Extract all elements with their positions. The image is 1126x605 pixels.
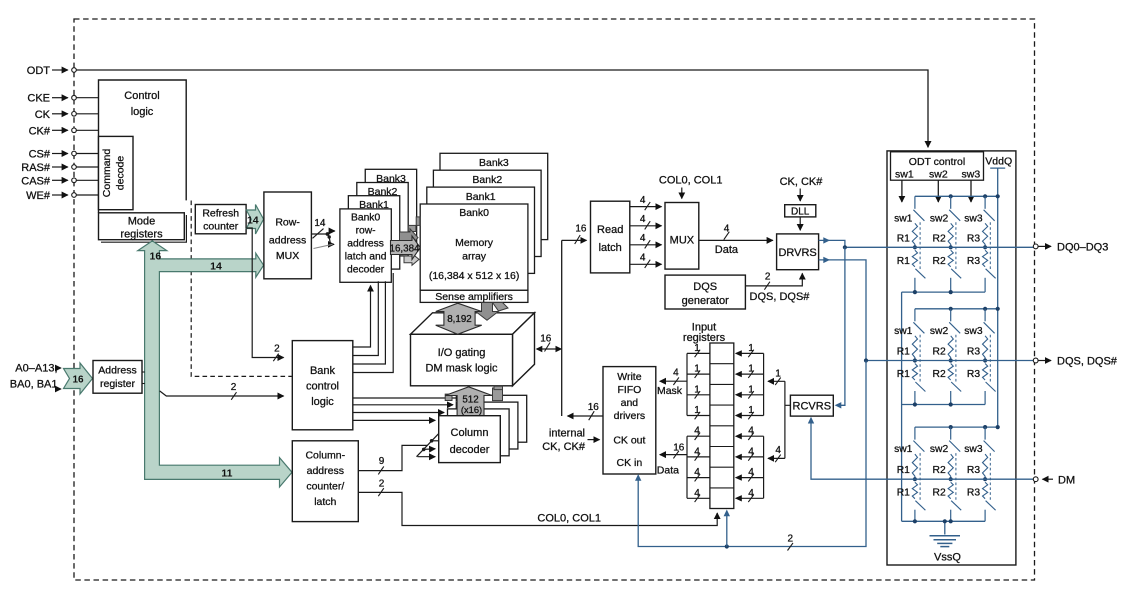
arrowhead into RCVRS right: [835, 402, 842, 408]
svg-text:MUX: MUX: [670, 234, 695, 246]
pin CAS# wire: [52, 179, 68, 181]
wire ODT to ODT control: [76, 70, 928, 147]
svg-text:R3: R3: [967, 233, 980, 244]
svg-text:BA0, BA1: BA0, BA1: [10, 379, 58, 391]
svg-text:1: 1: [748, 343, 754, 354]
svg-text:RCVRS: RCVRS: [793, 401, 832, 413]
wire fan to decoder stack lower: [329, 237, 334, 244]
svg-text:ODT: ODT: [27, 65, 51, 77]
wire CK into control logic: [76, 113, 98, 115]
ground tap wire: [944, 521, 946, 534]
arrowhead CK into input registers: [724, 510, 730, 517]
wire internal CK into write FIFO: [588, 439, 600, 441]
resistor R2 upper (DM): [948, 454, 953, 479]
svg-text:8,192: 8,192: [447, 314, 472, 325]
svg-text:R1: R1: [897, 465, 910, 476]
wire RAS# into command decode: [76, 166, 98, 168]
svg-text:2: 2: [765, 272, 771, 283]
wire A0-A13 into bus: [59, 367, 62, 369]
slashes on right mask comb: [748, 350, 754, 358]
switch linkage dashed sw2 (DQS): [955, 335, 957, 383]
wire pad to DQS label: [1039, 360, 1052, 362]
bank1 row decoder box: [348, 196, 399, 269]
svg-text:1: 1: [748, 405, 754, 416]
wire DQ rail to RCVRS: [838, 247, 845, 405]
pad circle DQ0-DQ3: [1033, 244, 1038, 249]
wire ODT control to sw1: [901, 180, 903, 202]
switch linkage dashed sw1 (DQS): [919, 335, 921, 383]
node ground tap: [943, 519, 947, 523]
wire pad to DQ label: [1039, 245, 1052, 247]
command decode box: [99, 136, 134, 209]
svg-text:2: 2: [379, 478, 385, 489]
wire 1 RCVRS to mask comb: [768, 380, 785, 382]
resistor R1 lower (DQS): [912, 364, 917, 380]
node mid rail DM c3: [983, 477, 987, 481]
switch linkage dashed sw1 (DM): [919, 453, 921, 501]
svg-text:Address: Address: [98, 365, 137, 377]
gray bus 8,192 echo arrow (behind): [476, 303, 499, 321]
svg-text:DQS, DQS#: DQS, DQS#: [750, 291, 811, 303]
wire fan arrow into front decoder (upper): [424, 448, 436, 451]
teal input bus arrow 16 from A0-A13,BA0,BA1: [64, 363, 93, 394]
pin CS# wire: [52, 153, 68, 155]
svg-text:Write: Write: [617, 371, 641, 383]
wire bank control to decoder 1: [353, 286, 371, 348]
wire CS# into command decode: [76, 153, 98, 155]
svg-text:CK in: CK in: [617, 457, 643, 469]
svg-text:decoder: decoder: [347, 265, 385, 276]
ODT group DQS top rail: [915, 308, 998, 310]
svg-text:Control: Control: [124, 90, 159, 102]
column select diagonal fan: [417, 433, 440, 457]
svg-text:sw2: sw2: [930, 444, 949, 455]
gray bus 512 shadow step: [494, 386, 503, 389]
wire CAS# into command decode: [76, 179, 98, 181]
svg-text:512: 512: [462, 394, 478, 405]
switch sw2 (DQ): [950, 196, 952, 209]
node bottom rail DM c2: [949, 519, 953, 523]
wire CK,CK# into DLL: [799, 189, 801, 202]
svg-text:RAS#: RAS#: [21, 162, 51, 174]
svg-text:R2: R2: [933, 347, 946, 358]
mode registers box: [99, 213, 185, 240]
svg-text:2: 2: [788, 533, 794, 544]
node DQ rail tap: [843, 245, 847, 249]
bank0 row-address latch and decoder box: [340, 209, 391, 282]
svg-text:Column-: Column-: [305, 450, 345, 462]
slash on 1 wire: [775, 378, 781, 386]
node top rail DQS c3: [983, 307, 987, 311]
svg-text:register: register: [100, 378, 136, 390]
resistor R2 upper (DQ): [948, 223, 953, 247]
node top rail DQ c2: [949, 194, 953, 198]
svg-text:sw1: sw1: [894, 326, 913, 337]
address register box: [93, 361, 142, 394]
node mid rail DQ c2: [949, 245, 953, 249]
switch lower sw2 (DM): [951, 501, 961, 511]
svg-text:WE#: WE#: [26, 190, 51, 202]
svg-text:DQS: DQS: [693, 281, 717, 293]
input registers column: [710, 343, 734, 509]
wire ODT control to sw2: [937, 180, 939, 202]
wire DM label to pad: [1043, 478, 1054, 480]
column decoder front box: [439, 416, 501, 463]
gray bus arrow 16,384 decoder to memory array: [391, 236, 421, 260]
wire bank control to column decoder front: [353, 419, 435, 421]
svg-text:1: 1: [694, 364, 700, 375]
svg-text:VddQ: VddQ: [985, 156, 1012, 168]
switch lower sw3 (DM): [986, 501, 996, 511]
svg-text:Data: Data: [715, 244, 739, 256]
node top rail DM c3: [983, 425, 987, 429]
input register cell dividers: [710, 363, 734, 365]
wire fan gray echo: [314, 244, 333, 248]
svg-text:R2: R2: [933, 369, 946, 380]
svg-text:control: control: [306, 381, 339, 393]
svg-text:14: 14: [210, 260, 222, 272]
wire bank control to column decoder stack 2: [353, 412, 444, 414]
svg-text:4: 4: [775, 445, 781, 456]
slashes on read latch to MUX wires: [645, 202, 651, 210]
svg-text:Bank0: Bank0: [351, 213, 380, 224]
bank control logic box: [292, 341, 353, 430]
wire 4 RCVRS to data comb: [768, 457, 785, 459]
pad circle CK#: [72, 128, 77, 133]
memory array bank2 box: [433, 170, 541, 256]
svg-text:4: 4: [640, 214, 646, 225]
gray bus 512 shadow block: [493, 388, 503, 401]
wire bank control to decoder 2: [353, 281, 379, 355]
resistor R3 lower (DQS): [982, 364, 987, 380]
pad circle CS#: [72, 151, 77, 156]
svg-text:Column: Column: [451, 427, 489, 439]
svg-text:address: address: [269, 234, 306, 246]
svg-text:Row-: Row-: [275, 216, 300, 228]
wire 2 DQS generator to DRVRS: [745, 273, 802, 286]
switch sw1 (DQ): [914, 196, 916, 209]
wire 16 write FIFO to internal bus: [568, 415, 604, 417]
resistor R1 upper (DM): [912, 454, 917, 479]
ODT group DM bottom rail: [902, 520, 986, 522]
svg-text:16: 16: [540, 333, 552, 344]
svg-text:DRVRS: DRVRS: [778, 247, 816, 259]
node mid rail DQ c3: [983, 245, 987, 249]
wire fan arrow into decoder 2: [432, 440, 445, 442]
svg-text:1: 1: [775, 369, 781, 380]
svg-text:R3: R3: [967, 488, 980, 499]
DLL box: [785, 205, 816, 217]
wire 14 MUX to bank0 row decoder: [311, 233, 327, 235]
svg-text:latch and: latch and: [345, 252, 387, 263]
node bottom rail DQS c1: [913, 402, 917, 406]
right data input comb: [738, 436, 763, 498]
resistor R3 lower (DQ): [982, 250, 987, 266]
resistor R3 upper (DQS): [982, 336, 987, 361]
node at 14 fanout: [326, 232, 330, 236]
wire ODT control to sw3: [970, 180, 972, 202]
slash on Data wire: [724, 232, 730, 240]
pin RAS# wire: [52, 166, 68, 168]
svg-text:R1: R1: [897, 256, 910, 267]
wire bank control to column decoder stack 4: [353, 397, 462, 399]
ODT group DM top rail: [915, 426, 998, 428]
switch sw3 (DM): [984, 427, 986, 440]
slash on refresh 2 wire: [273, 354, 278, 362]
svg-text:R1: R1: [897, 347, 910, 358]
svg-text:Data: Data: [657, 464, 679, 476]
wire 16 Data to write FIFO: [660, 454, 687, 456]
memory array bank3 box: [440, 153, 548, 239]
svg-text:address: address: [307, 465, 344, 477]
node top rail DM c2: [949, 425, 953, 429]
svg-text:R3: R3: [967, 465, 980, 476]
DRVRS box: [777, 234, 819, 270]
gray bus 16,384 lower echo arrow: [404, 254, 419, 266]
resistor R1 upper (DQS): [912, 336, 917, 361]
switch linkage dashed sw3 (DQS): [989, 335, 991, 383]
wire CKE into control logic: [76, 97, 98, 99]
svg-text:14: 14: [314, 218, 326, 229]
wire 4 Data MUX to DRVRS: [699, 239, 773, 241]
pin WE# wire: [52, 194, 68, 196]
svg-text:CK#: CK#: [29, 125, 51, 137]
wire bank control to column decoder stack 3: [353, 404, 453, 406]
resistor R3 upper (DM): [982, 454, 987, 479]
slash on Mask wire: [673, 377, 679, 385]
switch lower sw2 (DQ): [951, 269, 961, 279]
svg-text:16: 16: [588, 402, 600, 413]
switch lower sw2 (DQS): [951, 382, 961, 392]
switch linkage dashed sw3 (DQ): [989, 222, 991, 269]
svg-text:Memory: Memory: [455, 237, 494, 249]
svg-text:FIFO: FIFO: [617, 384, 641, 396]
wire DRVRS out to DQ pad rail: [819, 240, 1034, 247]
svg-text:16: 16: [575, 223, 587, 234]
gray bus 16,384 stack step B: [408, 225, 416, 231]
gray bus 16,384 stack step A: [416, 217, 420, 226]
arrowheads into register column (data): [735, 433, 742, 439]
wire 2 counter to COL0,COL1 run: [358, 492, 717, 525]
left data bus comb: [687, 436, 710, 498]
wire fan arrow into front decoder (lower): [418, 456, 436, 458]
svg-text:and: and: [621, 397, 639, 409]
switch sw2 (DQS): [950, 309, 952, 322]
svg-text:latch: latch: [314, 496, 336, 508]
wire 2 from address bus to bank control logic: [160, 391, 284, 396]
svg-text:1: 1: [748, 384, 754, 395]
I/O gating DM mask logic front face: [411, 334, 513, 386]
I/O gating 3D box right face: [513, 313, 535, 386]
svg-text:R2: R2: [933, 465, 946, 476]
slash on read 16 wire: [575, 235, 581, 244]
node on fan: [422, 448, 426, 452]
svg-text:R2: R2: [933, 256, 946, 267]
svg-text:4: 4: [640, 195, 646, 206]
switch linkage dashed sw1 (DQ): [919, 222, 921, 269]
node mid rail DM c2: [949, 477, 953, 481]
ODT group DQ top rail: [915, 195, 998, 197]
svg-text:sw2: sw2: [930, 326, 949, 337]
svg-text:DM: DM: [1058, 474, 1075, 486]
svg-text:registers: registers: [683, 332, 726, 344]
pad circle WE#: [72, 193, 77, 198]
node at lower fan: [328, 235, 331, 238]
svg-text:4: 4: [694, 426, 700, 437]
svg-text:11: 11: [221, 468, 232, 480]
switch lower sw1 (DM): [915, 501, 925, 511]
slashes on right data comb: [748, 433, 754, 441]
svg-text:1: 1: [694, 405, 700, 416]
input registers title: [683, 322, 726, 345]
wire 4 Mask to write FIFO: [660, 380, 687, 382]
node top rail DQS VddQ: [996, 307, 1000, 311]
arrowheads into register column (mask): [735, 350, 742, 356]
node DQS rail tap: [864, 358, 868, 362]
switch linkage dashed sw3 (DM): [989, 453, 991, 501]
svg-text:4: 4: [673, 367, 679, 378]
svg-text:COL0, COL1: COL0, COL1: [537, 513, 601, 525]
node mid rail DQS c1: [913, 358, 917, 362]
svg-text:1: 1: [748, 364, 754, 375]
switch lower sw3 (DQS): [986, 382, 996, 392]
svg-text:MUX: MUX: [276, 250, 299, 262]
svg-text:sw1: sw1: [895, 169, 914, 181]
svg-text:Bank3: Bank3: [479, 157, 509, 169]
pin CK# wire: [52, 129, 68, 131]
svg-text:Sense amplifiers: Sense amplifiers: [435, 291, 513, 303]
svg-text:Refresh: Refresh: [202, 208, 239, 220]
svg-text:sw2: sw2: [929, 169, 948, 181]
label Command decode (vertical): [101, 149, 127, 198]
svg-text:Mask: Mask: [657, 385, 683, 397]
RCVRS box: [790, 395, 833, 416]
DQS generator box: [665, 275, 745, 309]
svg-text:sw3: sw3: [964, 444, 983, 455]
svg-text:address: address: [347, 239, 384, 250]
svg-text:2: 2: [231, 382, 237, 393]
svg-text:Mode: Mode: [128, 216, 156, 228]
svg-text:sw1: sw1: [894, 444, 913, 455]
wire read latch to MUX 4: [630, 263, 662, 265]
svg-text:(16,384 x 512 x 16): (16,384 x 512 x 16): [429, 270, 519, 282]
node mid rail DQS c2: [949, 358, 953, 362]
wire stub address register to bus (upper tab): [142, 371, 145, 373]
svg-text:registers: registers: [120, 229, 163, 241]
slash on 2 wire: [378, 488, 384, 496]
svg-text:decode: decode: [115, 156, 127, 191]
svg-text:16: 16: [150, 251, 162, 263]
ground symbol VssQ: [930, 536, 961, 547]
column-address counter/latch box: [292, 441, 358, 522]
gray double arrow 8,192 sense amps to I/O gating: [436, 303, 482, 334]
DQS pad rail: [866, 360, 1033, 362]
RCVRS branch vertical wire: [785, 381, 791, 458]
gray bus 16,384 echo arrow: [400, 229, 419, 247]
svg-text:decoder: decoder: [450, 444, 490, 456]
svg-text:sw2: sw2: [930, 213, 949, 224]
wire 16 internal bus to read latch: [562, 239, 587, 241]
svg-text:4: 4: [748, 446, 754, 457]
svg-text:CKE: CKE: [27, 93, 50, 105]
wire read latch to MUX 1: [630, 206, 662, 208]
node bottom rail DQ c1: [913, 290, 917, 294]
node on fan upper: [430, 439, 434, 443]
svg-text:COL0, COL1: COL0, COL1: [659, 174, 723, 186]
svg-text:DM mask logic: DM mask logic: [425, 363, 498, 375]
switch lower sw3 (DQ): [986, 269, 996, 279]
svg-text:CK out: CK out: [613, 435, 645, 447]
svg-text:DQS, DQS#: DQS, DQS#: [1057, 356, 1118, 368]
refresh counter box: [195, 205, 246, 234]
slashes on mask comb: [695, 350, 701, 358]
slash on 9 wire: [378, 466, 384, 474]
pad circle DQS,DQS#: [1033, 358, 1038, 363]
resistor R2 upper (DQS): [948, 336, 953, 361]
svg-text:array: array: [462, 250, 487, 262]
switch sw3 (DQS): [984, 309, 986, 322]
svg-text:16: 16: [72, 375, 84, 386]
wire CK# into control logic: [76, 129, 98, 131]
svg-text:row-: row-: [356, 226, 376, 237]
switch sw1 (DQS): [914, 309, 916, 322]
pad circle CK: [72, 112, 77, 117]
svg-text:CAS#: CAS#: [21, 175, 51, 187]
node bottom rail DQS c2: [949, 402, 953, 406]
gray bus 512 left shadow: [445, 394, 452, 400]
svg-text:4: 4: [724, 223, 730, 234]
svg-text:logic: logic: [311, 396, 334, 408]
svg-text:Command: Command: [101, 149, 113, 198]
svg-text:A0–A13,: A0–A13,: [15, 363, 57, 375]
ODT control box: [891, 152, 984, 180]
arrowhead DRVRS DQS out: [823, 257, 830, 263]
svg-text:logic: logic: [131, 106, 154, 118]
svg-text:9: 9: [379, 456, 385, 467]
svg-text:counter: counter: [203, 221, 239, 233]
svg-text:16: 16: [673, 443, 685, 454]
svg-text:R1: R1: [897, 488, 910, 499]
svg-text:sw1: sw1: [894, 213, 913, 224]
column decoder stack box 3: [456, 402, 518, 449]
wire CK to input registers: [726, 513, 728, 547]
svg-text:CK, CK#: CK, CK#: [780, 176, 824, 188]
node bottom rail DM c1: [913, 519, 917, 523]
slash on DQS wire: [764, 282, 770, 290]
ODT group DQ bottom rail: [902, 291, 986, 293]
right mask input comb: [738, 353, 763, 415]
column decoder stack box 2: [448, 409, 510, 456]
svg-text:sw3: sw3: [964, 326, 983, 337]
ODT group DQS bottom rail: [902, 404, 986, 406]
svg-text:R2: R2: [933, 488, 946, 499]
VddQ rail: [990, 168, 1005, 427]
svg-text:Bank2: Bank2: [472, 174, 502, 186]
gray bus 8,192 echo step: [493, 303, 509, 312]
control logic box U-control: [99, 80, 187, 213]
svg-text:4: 4: [748, 426, 754, 437]
svg-text:4: 4: [694, 446, 700, 457]
svg-text:counter/: counter/: [306, 481, 344, 493]
wire stub address register to bus (lower tab): [142, 383, 145, 385]
svg-text:R1: R1: [897, 369, 910, 380]
svg-text:4: 4: [694, 467, 700, 478]
pad circle DM: [1033, 477, 1038, 482]
svg-text:4: 4: [694, 488, 700, 499]
resistor R3 lower (DM): [982, 482, 987, 498]
teal address bus: up-arrow 16 to mode registers, branch 14 to row-address MUX, elbow 11 arrow to column-address counter: [138, 241, 292, 487]
slash on 2 wire (blue): [788, 543, 794, 551]
